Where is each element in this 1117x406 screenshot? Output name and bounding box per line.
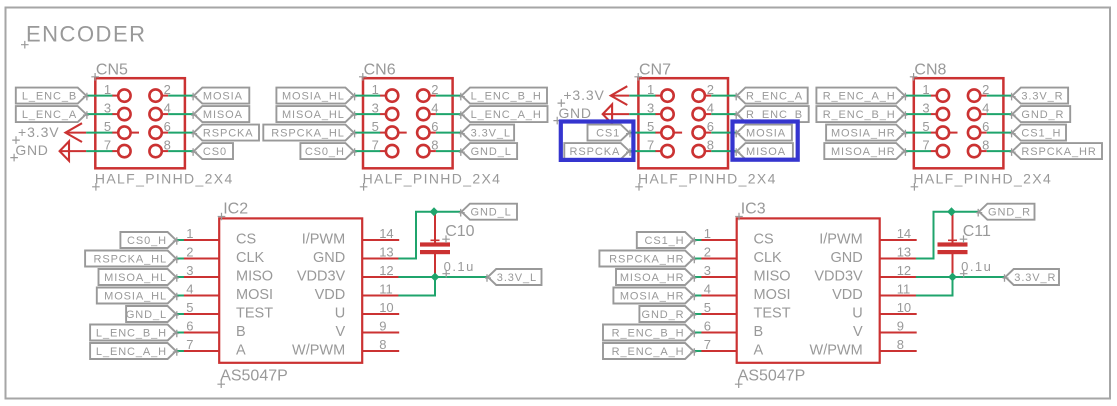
- wire to CN8 pin 5: [905, 132, 931, 134]
- svg-text:3.3V_L: 3.3V_L: [497, 272, 537, 284]
- wire stub at IC3 pin 5: [694, 313, 702, 315]
- wire to CN6 pin 7: [354, 150, 380, 152]
- net label L_ENC_A_H: [90, 343, 179, 359]
- svg-text:VDD3V: VDD3V: [814, 269, 863, 285]
- wire stub at IC2 pin 6: [176, 332, 184, 334]
- IC2 pin 1 (CS): [177, 226, 256, 248]
- svg-text:GND: GND: [15, 142, 48, 158]
- net label R_ENC_B: [734, 106, 809, 122]
- CN6 pin 5: [372, 119, 407, 139]
- IC2 pin 7 (A): [177, 337, 246, 359]
- IC2 pin 9 (V): [336, 319, 400, 341]
- CN5 pin 4: [149, 101, 170, 121]
- CN7 value HALF_PINHD_2X4: [635, 170, 777, 190]
- svg-text:I/PWM: I/PWM: [302, 232, 346, 248]
- svg-text:14: 14: [897, 226, 911, 241]
- wire stub at IC2 pin 3: [176, 276, 184, 278]
- wire stub at IC3 pin 1: [694, 239, 702, 241]
- wire to CN8 pin 1: [905, 95, 931, 97]
- svg-text:CS: CS: [236, 232, 256, 248]
- svg-text:6: 6: [186, 319, 193, 334]
- svg-text:CS0_H: CS0_H: [305, 146, 345, 158]
- svg-text:MISOA_HL: MISOA_HL: [282, 109, 345, 121]
- wire from CN5 pin 6: [168, 132, 194, 134]
- wire to CN7 pin 5: [629, 132, 655, 134]
- svg-text:RSPCKA_HR: RSPCKA_HR: [609, 254, 684, 266]
- IC3 pin 5 (TEST): [695, 300, 791, 322]
- svg-text:HALF_PINHD_2X4: HALF_PINHD_2X4: [95, 170, 234, 186]
- ground GND CN5: [10, 141, 86, 161]
- CN7 pin 4: [693, 101, 714, 121]
- CN7 pin 1: [647, 82, 674, 102]
- capacitor C10 0.1u: [420, 212, 450, 277]
- CN8 pin 3: [922, 101, 949, 121]
- net label R_ENC_B_H: [816, 106, 907, 122]
- wire from CN5 pin 2: [168, 95, 194, 97]
- CN7 pin 2: [693, 82, 714, 102]
- IC3 pin 11 (VDD): [832, 282, 917, 304]
- wire stub at IC3 pin 2: [694, 258, 702, 260]
- net label MOSIA_HL: [97, 288, 179, 304]
- wire IC3 pin11 to 3.3V net: [916, 277, 953, 296]
- net label L_ENC_A: [16, 106, 89, 122]
- svg-text:MOSIA_HR: MOSIA_HR: [831, 128, 896, 140]
- svg-text:L_ENC_B_H: L_ENC_B_H: [471, 91, 542, 103]
- wire stub at IC2 pin 1: [176, 239, 184, 241]
- svg-text:U: U: [335, 306, 345, 322]
- net label GND_R: [976, 204, 1034, 220]
- CN6 pin 1: [372, 82, 399, 102]
- net label MOSIA_HR: [826, 125, 907, 141]
- svg-text:MOSIA_HL: MOSIA_HL: [104, 291, 167, 303]
- IC2 pin 4 (MOSI): [177, 282, 273, 304]
- svg-text:RSPCKA: RSPCKA: [203, 128, 254, 140]
- net label MOSIA_HR: [613, 288, 696, 304]
- svg-text:CN6: CN6: [364, 62, 396, 79]
- svg-text:GND_R: GND_R: [988, 207, 1031, 219]
- C11 name label: [960, 223, 991, 243]
- net label CS1: [588, 125, 633, 141]
- svg-text:6: 6: [704, 319, 711, 334]
- svg-text:CN5: CN5: [96, 62, 128, 79]
- wire from CN6 pin 6: [436, 132, 462, 134]
- svg-text:3: 3: [186, 263, 193, 278]
- connector CN7 (HALF_PINHD_2X4): [638, 78, 728, 168]
- svg-text:RSPCKA_HR: RSPCKA_HR: [1021, 146, 1096, 158]
- svg-text:3: 3: [704, 263, 711, 278]
- IC3 name label: [735, 201, 766, 221]
- svg-text:RSPCKA_HL: RSPCKA_HL: [93, 254, 167, 266]
- capacitor C11 0.1u: [938, 212, 968, 277]
- wire from CN8 pin 8: [987, 150, 1013, 152]
- net label R_ENC_A: [734, 88, 808, 104]
- wire stub at IC2 pin 5: [176, 313, 184, 315]
- wire to CN7 pin 3: [629, 113, 655, 115]
- net label RSPCKA: [564, 143, 632, 159]
- connector CN8 (HALF_PINHD_2X4): [914, 78, 1004, 168]
- C10 value 0.1u: [442, 259, 475, 278]
- net label CS0: [191, 143, 233, 159]
- svg-text:CLK: CLK: [754, 250, 783, 266]
- net label L_ENC_B_H: [90, 325, 179, 341]
- svg-text:CS: CS: [754, 232, 774, 248]
- CN8 pin 2: [968, 82, 989, 102]
- C10 name label: [442, 223, 474, 243]
- IC2 pin 3 (MISO): [177, 263, 273, 285]
- net label RSPCKA_HL: [85, 251, 179, 267]
- net label MISOA_HL: [99, 269, 179, 285]
- net label GND_L: [459, 204, 517, 220]
- CN8 pin 6: [968, 119, 989, 139]
- CN8 pin 7: [922, 138, 949, 158]
- junction 3.3V net at C10: [431, 273, 440, 282]
- title ENCODER: [21, 22, 147, 49]
- wire stub at IC3 pin 7: [694, 350, 702, 352]
- svg-text:5: 5: [704, 300, 711, 315]
- wire from CN5 pin 8: [168, 150, 194, 152]
- svg-text:CS1: CS1: [596, 128, 620, 140]
- net label GND_R: [1010, 106, 1071, 122]
- CN5 name label: [91, 62, 128, 81]
- CN7 pin 8: [693, 138, 714, 158]
- svg-text:MOSI: MOSI: [236, 287, 273, 303]
- IC2 pin 8 (W/PWM): [292, 337, 399, 359]
- svg-text:GND_R: GND_R: [1021, 109, 1064, 121]
- svg-text:8: 8: [897, 337, 904, 352]
- svg-text:3.3V_R: 3.3V_R: [1014, 272, 1056, 284]
- wire from CN8 pin 2: [987, 95, 1013, 97]
- CN8 pin 4: [968, 101, 989, 121]
- wire to CN5 pin 7: [86, 150, 112, 152]
- wire stub at IC2 pin 4: [176, 295, 184, 297]
- wire to CN7 pin 7: [629, 150, 655, 152]
- net label 3.3V_L: [485, 269, 542, 285]
- wire to CN7 pin 1: [629, 95, 655, 97]
- wire stub at IC3 pin 4: [694, 295, 702, 297]
- IC3 pin 14 (I/PWM): [819, 226, 917, 248]
- CN6 pin 8: [417, 138, 438, 158]
- svg-text:VDD: VDD: [832, 287, 863, 303]
- IC3 pin 6 (B): [695, 319, 763, 341]
- svg-text:GND_R: GND_R: [641, 309, 684, 321]
- CN6 pin 4: [417, 101, 438, 121]
- ground GND CN7: [553, 104, 629, 124]
- CN5 value HALF_PINHD_2X4: [92, 170, 234, 190]
- net label MOSIA: [734, 125, 792, 141]
- CN5 pin 5: [104, 119, 139, 139]
- net label 3.3V_R: [1010, 88, 1069, 104]
- wire to CN6 pin 5: [354, 132, 380, 134]
- CN7 pin 7: [647, 138, 674, 158]
- net label RSPCKA_HL: [263, 125, 356, 141]
- svg-text:R_ENC_B_H: R_ENC_B_H: [823, 109, 896, 121]
- svg-text:0.1u: 0.1u: [444, 259, 475, 274]
- IC2 value AS5047P: [217, 368, 287, 389]
- net label CS1_H: [1010, 125, 1066, 141]
- net label CS0_H: [300, 143, 356, 159]
- CN5 pin 7: [104, 138, 131, 158]
- svg-text:MOSIA: MOSIA: [203, 91, 243, 103]
- svg-text:V: V: [336, 324, 346, 340]
- svg-text:V: V: [853, 324, 863, 340]
- net label RSPCKA_HR: [599, 251, 696, 267]
- svg-text:ENCODER: ENCODER: [26, 22, 147, 47]
- svg-text:MOSIA: MOSIA: [746, 128, 786, 140]
- svg-text:CS1_H: CS1_H: [1021, 128, 1061, 140]
- svg-text:11: 11: [897, 282, 911, 297]
- svg-text:B: B: [236, 324, 246, 340]
- CN6 pin 3: [372, 101, 399, 121]
- IC2 pin 10 (U): [335, 300, 399, 322]
- IC2 pin 6 (B): [177, 319, 245, 341]
- wire from CN7 pin 6: [711, 132, 737, 134]
- IC3 pin 1 (CS): [695, 226, 774, 248]
- CN8 pin 1: [922, 82, 949, 102]
- highlight box around MOSIA/MISOA labels: [733, 122, 798, 160]
- svg-text:GND_L: GND_L: [126, 309, 167, 321]
- svg-text:AS5047P: AS5047P: [738, 368, 806, 385]
- highlight box around CS1/RSPCKA labels: [561, 122, 634, 160]
- wire IC3 pin12 3.3V net: [916, 276, 1005, 278]
- svg-text:11: 11: [379, 282, 393, 297]
- svg-text:R_ENC_B: R_ENC_B: [746, 109, 803, 121]
- wire stub at IC3 pin 3: [694, 276, 702, 278]
- junction 3.3V net at C11: [948, 273, 957, 282]
- CN6 pin 7: [372, 138, 399, 158]
- svg-text:GND: GND: [830, 250, 862, 266]
- CN7 name label: [634, 62, 671, 81]
- wire from CN6 pin 2: [436, 95, 462, 97]
- power +3.3V CN5: [12, 123, 86, 144]
- svg-text:14: 14: [379, 226, 393, 241]
- svg-text:I/PWM: I/PWM: [819, 232, 863, 248]
- connector CN5 (HALF_PINHD_2X4): [95, 78, 185, 168]
- wire from CN7 pin 8: [711, 150, 737, 152]
- CN5 pin 6: [149, 119, 170, 139]
- svg-text:L_ENC_B: L_ENC_B: [22, 91, 77, 103]
- wire to CN5 pin 3: [86, 113, 112, 115]
- CN7 pin 3: [647, 101, 674, 121]
- svg-text:9: 9: [897, 319, 904, 334]
- net label MISOA_HR: [824, 143, 907, 159]
- wire IC2 pin12 3.3V net: [398, 276, 487, 278]
- IC3 pin 8 (W/PWM): [810, 337, 917, 359]
- svg-text:8: 8: [379, 337, 386, 352]
- svg-text:U: U: [852, 306, 862, 322]
- net label GND_R: [639, 306, 696, 322]
- net label 3.3V_R: [1003, 269, 1060, 285]
- svg-text:12: 12: [897, 263, 911, 278]
- IC3 pin 4 (MOSI): [695, 282, 791, 304]
- C11 value 0.1u: [960, 259, 993, 278]
- IC2 pin 5 (TEST): [177, 300, 273, 322]
- svg-text:2: 2: [704, 245, 711, 260]
- svg-text:7: 7: [704, 337, 711, 352]
- svg-text:R_ENC_A: R_ENC_A: [746, 91, 803, 103]
- svg-text:0.1u: 0.1u: [961, 259, 992, 274]
- svg-text:L_ENC_A: L_ENC_A: [22, 109, 77, 121]
- net label MISOA_HL: [276, 106, 356, 122]
- wire to CN8 pin 7: [905, 150, 931, 152]
- net label L_ENC_B: [16, 88, 89, 104]
- net label RSPCKA_HR: [1010, 143, 1102, 159]
- net label R_ENC_B_H: [603, 325, 696, 341]
- CN5 pin 8: [149, 138, 170, 158]
- IC3 pin 10 (U): [852, 300, 916, 322]
- IC2 pin 11 (VDD): [315, 282, 400, 304]
- net label GND_L: [126, 306, 179, 322]
- wire to CN5 pin 5: [86, 132, 112, 134]
- svg-text:MISOA: MISOA: [203, 109, 243, 121]
- svg-text:AS5047P: AS5047P: [220, 368, 288, 385]
- wire to CN6 pin 1: [354, 95, 380, 97]
- svg-text:5: 5: [186, 300, 193, 315]
- CN5 pin 2: [149, 82, 170, 102]
- wire from CN8 pin 6: [987, 132, 1013, 134]
- net label 3.3V_L: [459, 125, 514, 141]
- IC3 value AS5047P: [735, 368, 805, 389]
- svg-text:MISOA: MISOA: [746, 146, 786, 158]
- svg-text:A: A: [236, 343, 246, 359]
- svg-text:IC2: IC2: [223, 201, 248, 218]
- svg-text:GND_L: GND_L: [471, 146, 512, 158]
- IC3 pin 7 (A): [695, 337, 764, 359]
- CN6 value HALF_PINHD_2X4: [360, 170, 502, 190]
- svg-text:HALF_PINHD_2X4: HALF_PINHD_2X4: [363, 170, 502, 186]
- IC IC3 AS5047P: [737, 218, 880, 362]
- net label MISOA_HR: [616, 269, 696, 285]
- svg-text:10: 10: [897, 300, 911, 315]
- svg-text:R_ENC_A_H: R_ENC_A_H: [823, 91, 896, 103]
- IC2 pin 2 (CLK): [177, 245, 264, 267]
- svg-text:L_ENC_B_H: L_ENC_B_H: [96, 328, 167, 340]
- svg-text:HALF_PINHD_2X4: HALF_PINHD_2X4: [913, 170, 1052, 186]
- svg-text:9: 9: [379, 319, 386, 334]
- net label MOSIA: [191, 88, 249, 104]
- svg-text:MISOA_HL: MISOA_HL: [104, 272, 167, 284]
- svg-text:GND_L: GND_L: [471, 207, 512, 219]
- svg-text:RSPCKA_HL: RSPCKA_HL: [271, 128, 345, 140]
- CN6 pin 2: [417, 82, 438, 102]
- svg-text:C10: C10: [445, 223, 474, 240]
- CN8 name label: [910, 62, 947, 81]
- svg-text:1: 1: [186, 226, 193, 241]
- wire from CN7 pin 4: [711, 113, 737, 115]
- wire IC3 pin13 GND net: [916, 212, 979, 259]
- CN6 name label: [359, 62, 396, 81]
- svg-text:+3.3V: +3.3V: [563, 87, 604, 103]
- svg-text:W/PWM: W/PWM: [810, 343, 863, 359]
- CN7 pin 6: [693, 119, 714, 139]
- connector CN6 (HALF_PINHD_2X4): [363, 78, 453, 168]
- svg-text:3.3V_R: 3.3V_R: [1021, 91, 1063, 103]
- svg-text:1: 1: [704, 226, 711, 241]
- CN8 pin 8: [968, 138, 989, 158]
- IC2 pin 14 (I/PWM): [302, 226, 400, 248]
- svg-text:HALF_PINHD_2X4: HALF_PINHD_2X4: [638, 170, 777, 186]
- svg-text:13: 13: [379, 245, 393, 260]
- net label MOSIA_HL: [276, 88, 356, 104]
- svg-text:MOSI: MOSI: [754, 287, 791, 303]
- svg-text:12: 12: [379, 263, 393, 278]
- CN8 value HALF_PINHD_2X4: [911, 170, 1053, 190]
- net label RSPCKA: [191, 125, 259, 141]
- svg-text:CS0_H: CS0_H: [127, 235, 167, 247]
- svg-text:7: 7: [186, 337, 193, 352]
- svg-text:2: 2: [186, 245, 193, 260]
- svg-text:R_ENC_B_H: R_ENC_B_H: [612, 328, 685, 340]
- wire IC2 pin11 to 3.3V net: [398, 277, 435, 296]
- svg-text:VDD3V: VDD3V: [297, 269, 346, 285]
- svg-text:GND: GND: [558, 105, 591, 121]
- svg-text:C11: C11: [963, 223, 991, 240]
- svg-text:TEST: TEST: [754, 306, 791, 322]
- wire to CN8 pin 3: [905, 113, 931, 115]
- svg-text:CS1_H: CS1_H: [645, 235, 685, 247]
- svg-text:CN8: CN8: [914, 62, 946, 79]
- CN8 pin 5: [922, 119, 957, 139]
- svg-text:CLK: CLK: [236, 250, 265, 266]
- CN5 pin 3: [104, 101, 131, 121]
- power +3.3V CN7: [558, 86, 630, 107]
- CN7 pin 5: [647, 119, 682, 139]
- svg-text:MOSIA_HL: MOSIA_HL: [282, 91, 345, 103]
- svg-text:A: A: [754, 343, 764, 359]
- junction GND net at C10: [430, 207, 439, 216]
- net label L_ENC_A_H: [459, 106, 548, 122]
- svg-text:B: B: [754, 324, 764, 340]
- net label CS1_H: [637, 232, 697, 248]
- wire to CN6 pin 3: [354, 113, 380, 115]
- wire from CN6 pin 8: [436, 150, 462, 152]
- svg-text:MISOA_HR: MISOA_HR: [620, 272, 685, 284]
- CN6 pin 6: [417, 119, 438, 139]
- wire from CN5 pin 4: [168, 113, 194, 115]
- svg-text:MOSIA_HR: MOSIA_HR: [620, 291, 685, 303]
- IC2 pin 12 (VDD3V): [297, 263, 399, 285]
- IC IC2 AS5047P: [219, 218, 362, 362]
- svg-text:L_ENC_A_H: L_ENC_A_H: [96, 346, 167, 358]
- svg-text:TEST: TEST: [236, 306, 273, 322]
- svg-text:L_ENC_A_H: L_ENC_A_H: [471, 109, 542, 121]
- svg-text:VDD: VDD: [315, 287, 346, 303]
- wire stub at IC3 pin 6: [694, 332, 702, 334]
- wire stub at IC2 pin 2: [176, 258, 184, 260]
- net label CS0_H: [120, 232, 178, 248]
- IC3 pin 12 (VDD3V): [814, 263, 916, 285]
- svg-text:4: 4: [704, 282, 711, 297]
- svg-text:3.3V_L: 3.3V_L: [471, 128, 511, 140]
- IC2 pin 13 (GND): [313, 245, 399, 267]
- svg-text:CS0: CS0: [203, 146, 227, 158]
- wire stub at IC2 pin 7: [176, 350, 184, 352]
- svg-text:W/PWM: W/PWM: [292, 343, 345, 359]
- svg-text:+3.3V: +3.3V: [18, 124, 59, 140]
- wire from CN8 pin 4: [987, 113, 1013, 115]
- IC3 pin 2 (CLK): [695, 245, 782, 267]
- wire from CN6 pin 4: [436, 113, 462, 115]
- svg-text:10: 10: [379, 300, 393, 315]
- net label L_ENC_B_H: [459, 88, 547, 104]
- IC3 pin 13 (GND): [830, 245, 916, 267]
- junction GND net at C11: [947, 207, 956, 216]
- IC3 pin 3 (MISO): [695, 263, 791, 285]
- svg-text:IC3: IC3: [741, 201, 766, 218]
- net label R_ENC_A_H: [603, 343, 696, 359]
- svg-text:MISOA_HR: MISOA_HR: [831, 146, 896, 158]
- net label R_ENC_A_H: [816, 88, 907, 104]
- svg-text:GND: GND: [313, 250, 345, 266]
